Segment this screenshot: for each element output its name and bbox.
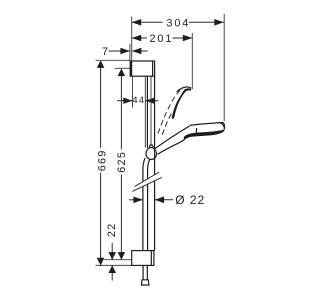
- head/handle separation line: [195, 128, 197, 134]
- dimension 201: [132, 33, 193, 45]
- dimension 669: [96, 60, 108, 265]
- slider holder: [146, 145, 157, 160]
- dimension 7: [102, 46, 147, 58]
- datum line top 625: [115, 67, 131, 69]
- datum line bottom 669: [96, 264, 132, 266]
- top cap of wall bar: [130, 61, 154, 76]
- extension line below cap for 44: [132, 76, 134, 107]
- hose lower end: [141, 265, 149, 285]
- dimension 625: [116, 69, 128, 260]
- break mark lines: [135, 172, 159, 186]
- svg-text:201: 201: [149, 33, 173, 45]
- extension line 304 right: [223, 14, 225, 121]
- dimension 22 (vertical): [106, 222, 118, 280]
- head spray face (black crescent): [184, 130, 224, 140]
- wall bar rail: [145, 76, 154, 250]
- dimension diameter 22: [129, 193, 205, 207]
- head tip inner line: [220, 123, 224, 128]
- svg-text:7: 7: [102, 46, 110, 58]
- datum line top 669: [96, 59, 131, 61]
- dimension 304: [132, 18, 224, 30]
- hand shower handle: [155, 125, 193, 154]
- svg-text:669: 669: [96, 149, 108, 171]
- raised head top rim: [177, 87, 192, 92]
- extension line left (wall): [131, 17, 133, 62]
- hand shower head: [184, 123, 225, 140]
- bottom bracket: [132, 251, 154, 266]
- extension line wall face for 7: [129, 44, 131, 61]
- datum line bottom 625: [104, 259, 132, 261]
- shower hose upper part: [143, 158, 150, 251]
- hand shower raised position (dashed outline): [158, 89, 181, 135]
- svg-text:Ø 22: Ø 22: [175, 193, 205, 207]
- svg-text:44: 44: [132, 95, 145, 105]
- dimension 44: [117, 95, 159, 105]
- hose nut: [141, 280, 149, 285]
- extension line 201 right: [191, 33, 193, 89]
- svg-text:304: 304: [166, 18, 190, 30]
- svg-text:22: 22: [106, 222, 118, 237]
- raised spray face (black crescent): [172, 88, 191, 118]
- svg-text:625: 625: [116, 151, 128, 173]
